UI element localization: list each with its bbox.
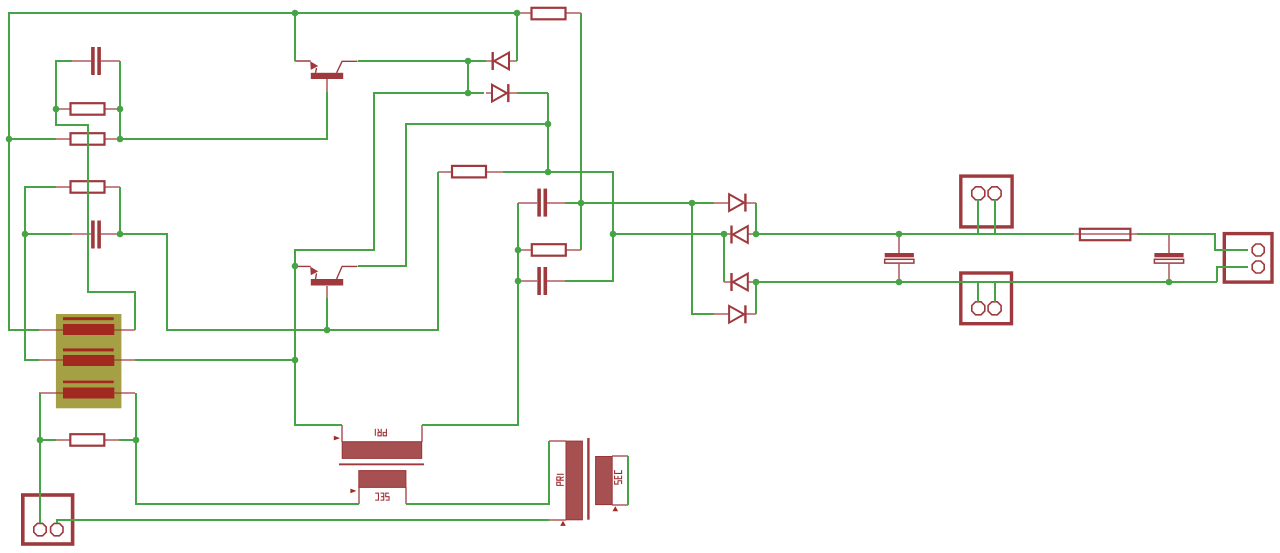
transformer T2 SEC winding (596, 457, 613, 505)
transistor Q2 emitter (295, 265, 311, 267)
inductor L1 winding bar 3 thin line (63, 381, 114, 384)
inductor L1 pins row 2 (39, 359, 135, 361)
wire D2 row to Q2 emitter to T1 PRI left (295, 93, 484, 425)
node C2 left (22, 231, 29, 238)
capacitor C2 pins (72, 233, 120, 235)
node C5 bottom (896, 279, 903, 286)
resistor R1 pins (56, 108, 120, 110)
node bridge minus (753, 279, 760, 286)
transformer T2 PRI pins (549, 441, 566, 520)
transistor Q1 collector pin (326, 79, 328, 92)
transformer T1 SEC polarity arrow (350, 489, 356, 494)
inductor L1 winding bar 1 (63, 324, 114, 335)
connector J3 pin circles (972, 302, 985, 315)
wire C3 left rail to T1 PRI right (422, 203, 518, 425)
wire D4 D5 vertical (723, 234, 725, 282)
diode D3 (744, 194, 746, 212)
wire R7 left stub (40, 439, 56, 441)
wire J2 pin 2 (994, 199, 996, 234)
wire R6 right vertical (580, 203, 582, 250)
resistor R1 (71, 103, 105, 115)
resistor R6 pins (518, 249, 581, 251)
capacitor C5 pins (898, 234, 900, 282)
capacitor C6 pins (1168, 234, 1170, 282)
resistor R3 (71, 181, 105, 193)
transistor Q2 base bar (311, 279, 343, 286)
capacitor C3 (537, 189, 541, 217)
node R4 top (545, 121, 552, 128)
connector J1 body (23, 495, 73, 544)
diode D5 (730, 273, 732, 291)
diode D5 pins (724, 281, 756, 283)
wire L1 pin 5 to J1 pin 1 (39, 393, 41, 523)
connector J2 body (961, 176, 1012, 227)
wire bottom output rail (756, 281, 1217, 283)
wire D6 right up (755, 282, 757, 314)
wire D3 right down (755, 203, 757, 234)
wire R7 right stub (119, 439, 136, 441)
connector J4 pin circles (1252, 244, 1264, 256)
transformer T2 core (587, 438, 589, 520)
wire L1 pin 4 to Q2 emitter rail (135, 359, 295, 361)
wire D2 right (517, 92, 548, 94)
wire C1 right vertical (119, 61, 121, 139)
transformer T1 SEC winding (359, 471, 406, 488)
wire J2 pin 1 (977, 199, 979, 234)
wire C1 left to R1 jog (56, 61, 135, 330)
capacitor C5 (885, 253, 914, 257)
wire Q1 base to D1 (358, 60, 486, 62)
wire top rail and left rail (9, 13, 517, 330)
node D4 left rail (610, 231, 617, 238)
connector J1 pin circles (34, 523, 46, 535)
capacitor C1 pins (72, 60, 120, 62)
wire D1 right up to R5 (516, 13, 518, 61)
wire T1 SEC right to T2 PRI top (406, 441, 549, 504)
wire J3 pin 2 (994, 282, 996, 302)
wire D3 left (692, 202, 714, 204)
resistor R2 pins (56, 138, 120, 140)
node R7 left (37, 437, 44, 444)
wire R5 right drop (580, 13, 582, 203)
wire top output rail (756, 233, 1074, 235)
transistor Q2 collector pin (326, 286, 328, 298)
wire J1 pin 2 to T2 PRI bottom (57, 520, 549, 523)
transformer T2 PRI winding (566, 441, 582, 520)
transformer T2 PRI polarity arrow (560, 521, 566, 526)
inductor L1 pins row 1 (39, 329, 135, 331)
wire R2 right to Q1 collector (120, 92, 327, 139)
wire fuse to J4 pin 1 (1137, 234, 1248, 250)
capacitor C6 (1154, 253, 1183, 257)
connector J3 body (961, 273, 1012, 324)
wire D1 D2 link (467, 61, 469, 93)
transistor Q1 base lead (337, 61, 358, 73)
wire R4 node to Q2 base (358, 124, 548, 266)
wire R3 right vertical (119, 187, 121, 234)
inductor L1 winding bar 1 thin line (63, 317, 114, 320)
wire L1 pin 6 to T1 SEC left (136, 393, 359, 504)
resistor R4 (452, 166, 486, 178)
wire D4 row left (613, 233, 724, 235)
diode D3 pins (714, 202, 756, 204)
node R4 right (545, 169, 552, 176)
fuse F1 pin line (1074, 233, 1137, 235)
diode D2 pins (486, 92, 517, 94)
capacitor C4 pins (518, 280, 565, 282)
node C3 right (578, 200, 585, 207)
diode D6 pins (714, 313, 756, 315)
resistor R2 (71, 133, 105, 145)
inductor L1 winding bar 2 thin line (63, 348, 114, 351)
diode D4 pins (724, 233, 756, 235)
node L1 pin4 rail (292, 357, 299, 364)
wire R2 left (9, 138, 56, 140)
resistor R6 (532, 244, 566, 256)
resistor R3 pins (56, 186, 120, 188)
transistor Q1 base bar (311, 73, 343, 79)
transformer T2 SEC polarity arrow (613, 506, 619, 511)
diode D2 (507, 84, 509, 102)
inductor L1 winding bar 3 (63, 388, 114, 399)
wire R3 left down to L1 pin 2 (25, 187, 56, 360)
inductor block L1 highlighted background (56, 314, 122, 408)
capacitor C3 pins (518, 202, 565, 204)
inductor L1 pins row 3 (39, 392, 135, 394)
transformer T2 SEC label (615, 470, 622, 484)
node D1 left (465, 58, 472, 65)
capacitor C1 (91, 47, 95, 75)
wire J4 pin 2 (1217, 267, 1248, 282)
node left rail R2 (6, 136, 13, 143)
resistor R5 (532, 8, 566, 19)
wire C2 right to R4 left (120, 172, 438, 330)
node Q2 emitter (292, 263, 299, 270)
node D4 anode (721, 231, 728, 238)
transformer T1 SEC pins (359, 487, 406, 504)
node bridge input (689, 200, 696, 207)
transformer T2 PRI label (557, 474, 564, 485)
connector J2 pin circles (972, 187, 985, 200)
capacitor C2 (91, 221, 95, 249)
node top rail R5 (514, 10, 521, 17)
transformer T1 PRI pins (342, 425, 422, 442)
transformer T1 SEC label (375, 493, 389, 500)
node R1 left (53, 106, 60, 113)
node R2 right (117, 136, 124, 143)
resistor R5 pins (517, 12, 581, 14)
wire Q2 collector drop (326, 298, 328, 330)
wire C3 right to bridge (565, 202, 692, 204)
wire bridge left vertical to D6 (692, 203, 714, 314)
node R1 right (117, 106, 124, 113)
diode D1 pins (486, 60, 517, 62)
node C5 top (896, 231, 903, 238)
wire Q1 emitter drop (294, 13, 296, 61)
connector J4 body (1224, 234, 1272, 283)
capacitor C4 (537, 267, 541, 295)
transformer T1 PRI winding (342, 442, 422, 459)
node R7 right (133, 437, 140, 444)
node R6 left (515, 247, 522, 254)
transistor Q1 emitter (295, 60, 311, 62)
fuse F1 (1080, 229, 1131, 240)
resistor R7 (70, 434, 104, 446)
node D2 left (465, 90, 472, 97)
wire T2 SEC short (627, 456, 629, 505)
transistor Q2 base lead (337, 266, 358, 279)
transformer T1 PRI label (375, 429, 386, 436)
node C2 right (117, 231, 124, 238)
wire C2 left (25, 233, 72, 235)
diode D4 (730, 226, 732, 244)
wire R4 right to C4 right (503, 172, 613, 281)
diode D6 (744, 305, 746, 323)
wire J3 pin 1 (977, 282, 979, 302)
transformer T1 core (339, 463, 424, 465)
transformer T2 SEC pins (612, 456, 628, 505)
transformer T1 PRI polarity arrow (334, 436, 340, 441)
wire D2 to R4 vertical (547, 93, 549, 172)
resistor R4 pins (438, 171, 503, 173)
node C6 bottom (1166, 279, 1173, 286)
node C4 left (515, 278, 522, 285)
node Q2 collector (324, 327, 331, 334)
inductor L1 winding bar 2 (63, 355, 114, 366)
diode D1 (492, 52, 494, 70)
node bridge plus (753, 231, 760, 238)
resistor R7 pins (56, 439, 119, 441)
node top rail Q1 (292, 10, 299, 17)
